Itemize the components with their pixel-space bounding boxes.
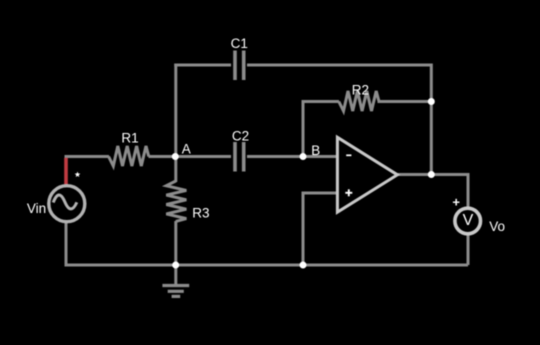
junction: R2 right end on output vertical <box>428 98 435 105</box>
wire: R3 bottom to bottom rail <box>174 221 177 265</box>
star polarity marker at Vin positive terminal <box>75 172 81 177</box>
wire: op-amp plus input to left and down to bottom rail <box>303 193 338 265</box>
svg-text:R1: R1 <box>121 130 138 145</box>
wire: top rail from A-vertical corner to C1 left plate <box>174 64 231 67</box>
junction: op-amp output node <box>428 171 435 178</box>
svg-text:V: V <box>463 212 474 229</box>
ground <box>162 265 189 296</box>
wire: R2 loop - B up, left segment to zigzag <box>303 102 339 157</box>
wire: R2 loop - zigzag right to junction on right vertical <box>378 100 432 103</box>
op-amp non-inverting input marker (+) <box>345 192 352 194</box>
resistor R1 <box>109 146 149 166</box>
junction: ground on bottom rail <box>172 262 179 269</box>
capacitor C1 <box>235 51 244 81</box>
svg-text:R3: R3 <box>192 206 209 221</box>
svg-text:Vo: Vo <box>489 219 505 234</box>
op-amp triangle body <box>337 137 397 212</box>
wire: main row R1 right to C2 left plate <box>149 155 232 158</box>
capacitor C2 <box>235 142 244 172</box>
op-amp U1 <box>337 137 397 212</box>
wire: op-amp output to voltmeter branch corner <box>397 175 468 266</box>
svg-text:+: + <box>452 195 460 210</box>
svg-text:B: B <box>311 143 320 158</box>
wire: node A down through R3 to ground junction (top part) <box>174 157 177 183</box>
AC source Vin <box>49 186 85 222</box>
node A junction dot <box>172 153 179 160</box>
svg-text:A: A <box>182 142 191 157</box>
op-amp inverting input marker (-) <box>346 154 351 156</box>
voltmeter V (probe) <box>455 208 481 234</box>
resistor R2 <box>339 91 379 111</box>
resistor R3 <box>166 181 186 221</box>
wire: red segment from main row to Vin top terminal <box>64 158 68 187</box>
svg-text:C1: C1 <box>231 36 248 51</box>
junction: plus-input branch on bottom rail <box>300 262 307 269</box>
svg-text:R2: R2 <box>352 83 369 98</box>
wire: main row Vin corner to R1 left <box>65 155 110 158</box>
wire: main row C2 right plate to op-amp minus input <box>247 155 338 158</box>
wire: top rail from C1 right plate to right vertical and down to output junction <box>247 65 431 175</box>
wire: A vertical from top rail to node A <box>174 64 177 157</box>
wire: bottom rail <box>65 264 469 267</box>
svg-text:Vin: Vin <box>27 201 46 216</box>
svg-text:C2: C2 <box>232 129 249 144</box>
node B junction dot <box>300 153 307 160</box>
wire: Vin bottom terminal down to bottom rail <box>65 219 68 267</box>
